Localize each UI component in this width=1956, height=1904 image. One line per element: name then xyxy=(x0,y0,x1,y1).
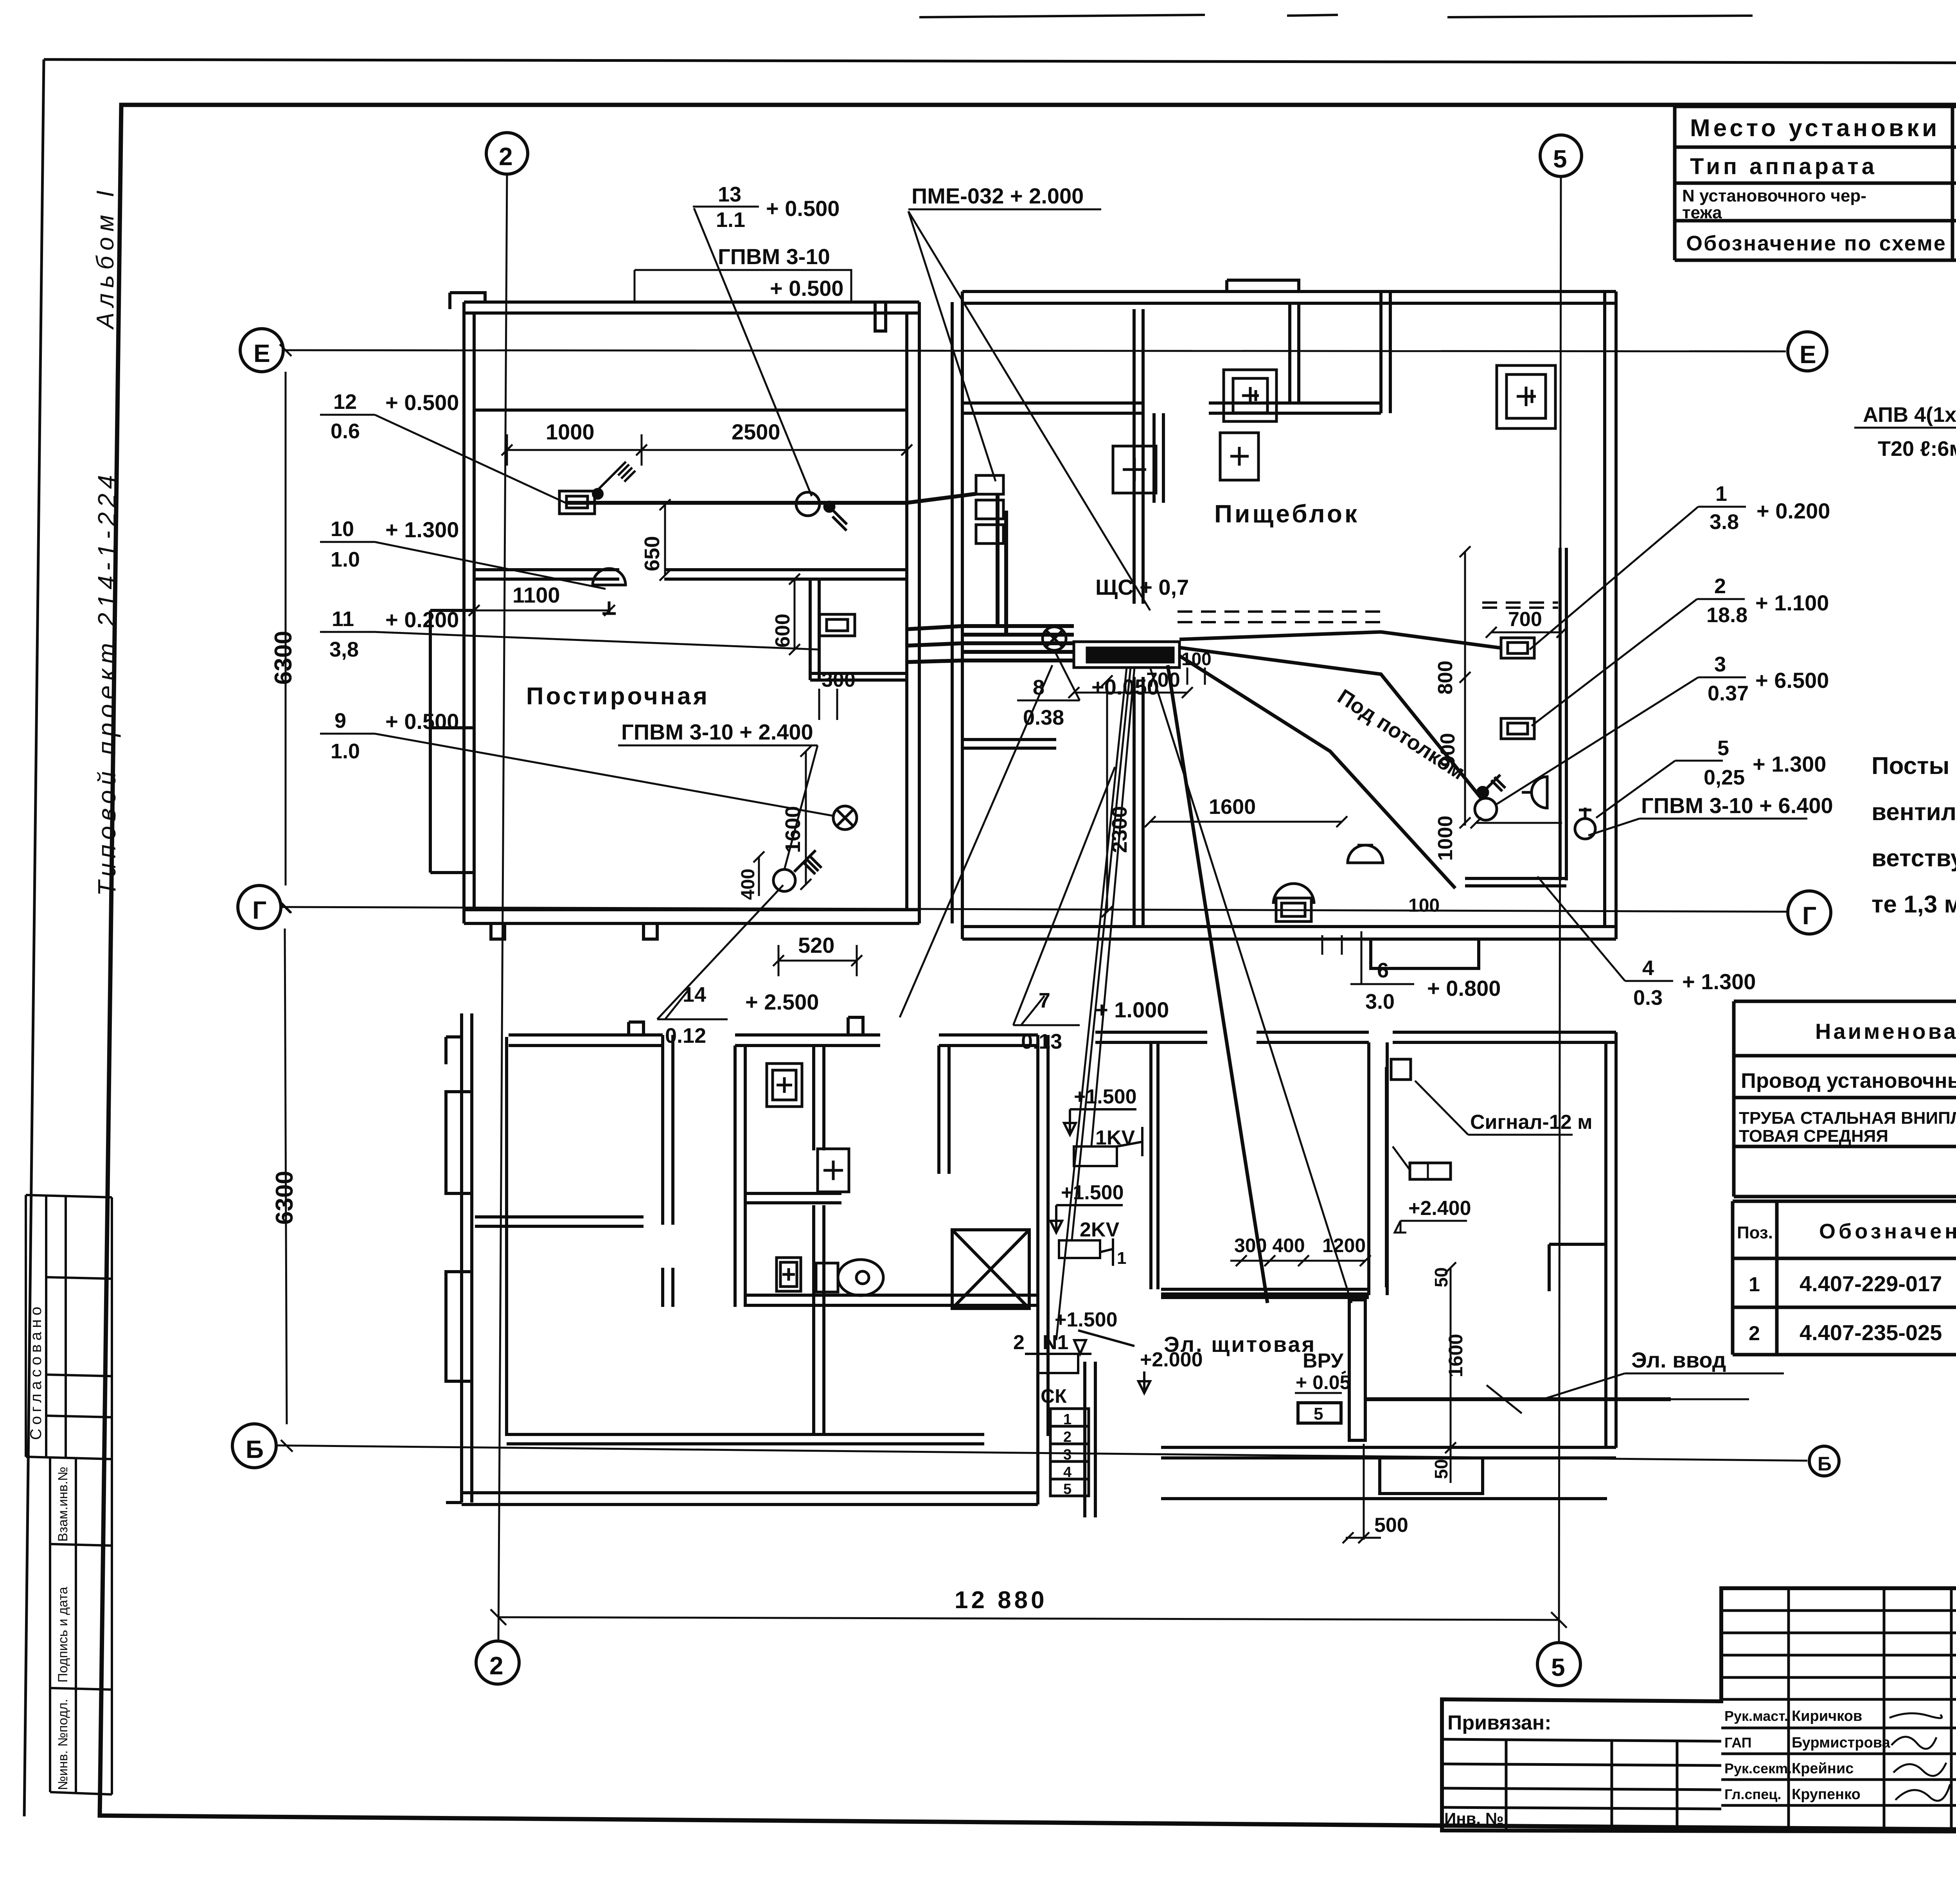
svg-text:N установочного чер-: N установочного чер- xyxy=(1682,186,1866,205)
dimension 520 xyxy=(773,933,862,976)
starter 1KV lower xyxy=(1064,1085,1142,1166)
svg-text:ПМЕ-032 + 2.000: ПМЕ-032 + 2.000 xyxy=(911,184,1084,208)
axis circle B right xyxy=(1809,1446,1839,1476)
upper plan left block outer walls xyxy=(450,293,919,939)
right margin label 1 xyxy=(1530,482,1830,650)
vertical dimension 6300 upper xyxy=(270,344,297,913)
svg-text:5: 5 xyxy=(1314,1404,1323,1424)
svg-text:+ 1.300: + 1.300 xyxy=(1682,969,1756,994)
label 8 fraction xyxy=(1017,650,1159,729)
left margin label 12 xyxy=(320,390,568,504)
motor circle with ground bottom xyxy=(773,850,822,891)
left margin vertical text: typical project xyxy=(93,470,121,896)
svg-text:6300: 6300 xyxy=(271,1171,298,1225)
svg-text:9: 9 xyxy=(334,709,346,732)
svg-text:ГПВМ 3-10 + 6.400: ГПВМ 3-10 + 6.400 xyxy=(1641,793,1833,818)
svg-text:Обозначение по схеме: Обозначение по схеме xyxy=(1686,232,1947,255)
label 4 fraction xyxy=(1537,876,1756,1010)
left margin label 11 xyxy=(320,607,820,661)
device box 1 lower xyxy=(1393,1146,1451,1179)
svg-text:2500: 2500 xyxy=(732,419,780,444)
dimension 700 right xyxy=(1486,608,1568,638)
dims 300 400 1200 lower xyxy=(1230,1235,1371,1266)
svg-text:Согласовано: Согласовано xyxy=(27,1303,45,1440)
top right table: place of installation xyxy=(1675,106,1956,260)
svg-text:520: 520 xyxy=(798,933,834,957)
svg-text:5: 5 xyxy=(1551,1653,1565,1681)
svg-text:500: 500 xyxy=(1374,1514,1408,1537)
svg-text:400: 400 xyxy=(738,869,759,900)
motor circle upper mid xyxy=(796,492,847,531)
svg-text:1100: 1100 xyxy=(512,583,560,607)
ground arrow upper left xyxy=(593,462,635,498)
svg-text:650: 650 xyxy=(640,536,664,571)
receptacle device upper left xyxy=(559,491,595,514)
svg-text:6300: 6300 xyxy=(270,631,297,685)
leaders from PME-032 xyxy=(908,211,1150,610)
wire label pod potolkom xyxy=(1333,685,1469,784)
svg-text:+ 6.500: + 6.500 xyxy=(1755,668,1829,693)
svg-text:+ 0.200: + 0.200 xyxy=(1756,498,1830,523)
table texts row4 xyxy=(1686,228,1956,263)
svg-text:АПВ 4(1х2,5): АПВ 4(1х2,5) xyxy=(1863,403,1956,427)
vertical dimension 6300 lower xyxy=(271,901,298,1452)
power panel ShchS hatched bar xyxy=(1074,642,1179,668)
svg-text:Б: Б xyxy=(1818,1453,1832,1475)
svg-text:1600: 1600 xyxy=(781,806,805,853)
title block left privyazan box xyxy=(1442,1711,1721,1832)
label GPVM 3-10 +2.400 xyxy=(618,720,818,869)
svg-text:4: 4 xyxy=(1642,956,1654,980)
dimension 100 near panel xyxy=(1181,649,1212,685)
svg-text:Гл.спец.: Гл.спец. xyxy=(1724,1786,1781,1802)
lamp right chamber xyxy=(1522,777,1547,808)
svg-text:0,25: 0,25 xyxy=(1704,766,1745,789)
svg-text:0.37: 0.37 xyxy=(1708,682,1749,705)
dimension 1600 left xyxy=(781,746,811,890)
lamp in middle room xyxy=(593,569,626,614)
dimension 1000 2500 top xyxy=(502,419,912,466)
svg-text:вентиляторов устанавливаются: вентиляторов устанавливаются у соот- xyxy=(1872,799,1956,826)
svg-text:ветствующих им пускателей н: ветствующих им пускателей на высо- xyxy=(1872,845,1956,872)
room label pishcheblok xyxy=(1214,500,1359,528)
axis circle E right xyxy=(1788,332,1827,371)
axis B line xyxy=(276,1445,1807,1461)
materials table xyxy=(1734,1001,1956,1197)
svg-text:Поз.: Поз. xyxy=(1737,1223,1773,1242)
svg-text:+2.400: +2.400 xyxy=(1408,1197,1471,1220)
axis 5 vertical line xyxy=(1559,176,1561,1643)
svg-text:Место установки: Место установки xyxy=(1690,115,1940,142)
svg-text:+1.500: +1.500 xyxy=(1061,1181,1124,1204)
svg-text:+ 0.500: + 0.500 xyxy=(766,196,840,221)
N1 bell lower xyxy=(1013,1308,1203,1393)
axis circle G left xyxy=(238,885,281,929)
dimension 1000 right xyxy=(1434,815,1471,861)
svg-text:Эл. щитовая: Эл. щитовая xyxy=(1164,1332,1316,1357)
svg-text:Тип аппарата: Тип аппарата xyxy=(1690,154,1877,179)
signal label xyxy=(1415,1081,1593,1135)
label 7 fraction xyxy=(1013,767,1169,1053)
title block signers xyxy=(1724,1708,1891,1803)
svg-text:1600: 1600 xyxy=(1445,1334,1467,1377)
svg-text:12 880: 12 880 xyxy=(955,1587,1048,1614)
SK terminal stack xyxy=(1041,1385,1089,1497)
dim 50 lower xyxy=(1431,1448,1451,1483)
svg-text:2: 2 xyxy=(1714,574,1726,598)
svg-text:2: 2 xyxy=(489,1652,503,1680)
sidebar label Soglasovano xyxy=(27,1303,45,1440)
svg-text:0.12: 0.12 xyxy=(665,1024,706,1047)
svg-text:3: 3 xyxy=(1714,653,1726,676)
svg-text:+ 0.800: + 0.800 xyxy=(1427,976,1501,1001)
dimension 2300 xyxy=(1102,675,1131,917)
sidebar stamp table (soglasovano) xyxy=(26,1195,112,1459)
svg-text:10: 10 xyxy=(331,517,354,541)
svg-text:6: 6 xyxy=(1377,959,1389,982)
dim 50 upper xyxy=(1431,1262,1456,1303)
thin extension of input line xyxy=(1487,1385,1749,1413)
left margin label 9 xyxy=(320,709,833,816)
svg-text:+1.500: +1.500 xyxy=(1074,1085,1137,1108)
lower plan left wall with windows xyxy=(446,1013,507,1503)
positions table texts xyxy=(1737,1220,1956,1353)
axis circle 5 bottom xyxy=(1537,1643,1580,1686)
svg-text:Типовой проект 214-1-224: Типовой проект 214-1-224 xyxy=(93,470,121,896)
svg-text:300: 300 xyxy=(822,669,856,691)
under-ceiling dashed run xyxy=(1178,603,1558,622)
svg-text:Альбом I: Альбом I xyxy=(92,185,119,330)
svg-text:Г: Г xyxy=(252,896,266,924)
right margin label 2 xyxy=(1532,574,1829,726)
wire risers up from panel xyxy=(998,494,1006,635)
svg-text:+ 0.500: + 0.500 xyxy=(385,390,459,415)
upper plan right block outer walls xyxy=(952,280,1616,968)
horizontal dimension 12880 xyxy=(491,1587,1567,1628)
svg-text:50: 50 xyxy=(1431,1459,1451,1479)
svg-text:Инв. №: Инв. № xyxy=(1444,1809,1504,1828)
wire bundle left of panel xyxy=(907,626,1074,662)
svg-text:Посты управления эл. двигате: Посты управления эл. двигателями xyxy=(1872,752,1956,779)
dimension 300 xyxy=(819,669,856,720)
svg-text:Обозначение: Обозначение xyxy=(1819,1220,1956,1243)
svg-text:Крупенко: Крупенко xyxy=(1792,1786,1861,1803)
signal device top xyxy=(1391,1059,1411,1080)
svg-text:1200: 1200 xyxy=(1322,1235,1366,1256)
svg-text:+ 1.300: + 1.300 xyxy=(1753,752,1826,776)
VRU cabinet xyxy=(1295,1300,1365,1440)
svg-text:1: 1 xyxy=(1117,1249,1126,1268)
lower plan top wall xyxy=(509,1017,1038,1046)
note paragraph xyxy=(1872,752,1956,918)
svg-text:СК: СК xyxy=(1041,1385,1067,1407)
svg-text:+ 0.500: + 0.500 xyxy=(385,709,459,734)
svg-text:50: 50 xyxy=(1431,1267,1451,1287)
svg-text:Бурмистрова: Бурмистрова xyxy=(1792,1735,1891,1751)
svg-text:3,8: 3,8 xyxy=(329,638,359,661)
svg-text:+ 1.100: + 1.100 xyxy=(1755,590,1829,615)
dimension 400 xyxy=(738,851,764,900)
svg-text:3: 3 xyxy=(1063,1447,1071,1463)
title block signatures xyxy=(1889,1713,1950,1801)
svg-text:13: 13 xyxy=(718,183,741,206)
svg-text:тежа: тежа xyxy=(1682,203,1722,222)
sidebar label vzam inv xyxy=(56,1467,70,1542)
svg-text:3.8: 3.8 xyxy=(1710,510,1739,534)
dimension 100 bottom xyxy=(1322,895,1440,955)
svg-text:ТРУБА СТАЛЬНАЯ ВНИПЛАС-: ТРУБА СТАЛЬНАЯ ВНИПЛАС- xyxy=(1739,1109,1956,1128)
svg-text:1.0: 1.0 xyxy=(331,548,360,571)
svg-text:1.1: 1.1 xyxy=(716,208,745,232)
svg-text:100: 100 xyxy=(1408,895,1440,916)
svg-text:Пищеблок: Пищеблок xyxy=(1214,500,1359,528)
svg-text:0.6: 0.6 xyxy=(331,419,360,443)
lamp at bottom wall xyxy=(1348,845,1383,863)
svg-text:Е: Е xyxy=(253,339,270,367)
upper room wire run left block xyxy=(565,494,976,503)
dimension 1600 centre xyxy=(1145,795,1347,827)
kitchen appliance boxes with cross xyxy=(1113,365,1555,493)
svg-text:1.0: 1.0 xyxy=(331,740,360,763)
svg-text:ТОВАЯ СРЕДНЯЯ: ТОВАЯ СРЕДНЯЯ xyxy=(1739,1127,1888,1146)
svg-text:1: 1 xyxy=(1715,482,1727,506)
svg-text:5: 5 xyxy=(1717,736,1729,760)
dim 1600 lower xyxy=(1445,1303,1467,1453)
svg-text:14: 14 xyxy=(683,983,706,1006)
dimension 900 right xyxy=(1436,733,1459,767)
label 6 fraction xyxy=(1350,931,1501,1013)
materials table texts xyxy=(1739,1014,1956,1146)
svg-text:100: 100 xyxy=(1181,649,1212,669)
label +2.400 xyxy=(1395,1197,1471,1233)
thin long leaders crossing plans xyxy=(900,665,1352,1340)
upper plan left block inner partitions xyxy=(430,410,907,873)
left margin label 10 xyxy=(320,517,606,589)
svg-text:800: 800 xyxy=(1434,660,1457,695)
motor circle lower left room xyxy=(833,806,857,830)
svg-text:2: 2 xyxy=(1063,1429,1071,1445)
right margin label 5 xyxy=(1596,736,1826,818)
svg-text:300 400: 300 400 xyxy=(1234,1235,1305,1256)
label GPVM 3-10 upper xyxy=(635,244,851,302)
wires lower plan xyxy=(1161,1067,1671,1399)
svg-text:1: 1 xyxy=(1749,1273,1760,1296)
sanitary plus box 2 xyxy=(818,1149,849,1192)
svg-text:5: 5 xyxy=(1063,1481,1071,1497)
dimension 600 xyxy=(771,574,800,655)
svg-text:+ 0.500: + 0.500 xyxy=(770,276,843,301)
washing device near bottom xyxy=(1273,884,1314,921)
svg-text:1: 1 xyxy=(1063,1411,1071,1428)
svg-text:1600: 1600 xyxy=(1209,795,1256,819)
svg-text:2KV: 2KV xyxy=(1080,1218,1119,1241)
left margin vertical text: album xyxy=(92,185,119,330)
svg-text:3.0: 3.0 xyxy=(1365,990,1395,1013)
svg-text:Б: Б xyxy=(246,1435,264,1463)
svg-text:4.407-235-025: 4.407-235-025 xyxy=(1800,1320,1942,1345)
upper plan room label postirochnaya xyxy=(526,683,710,710)
svg-text:№инв. №подл.: №инв. №подл. xyxy=(56,1699,70,1790)
svg-text:Провод установочный: Провод установочный xyxy=(1741,1069,1956,1092)
sidebar label podpis i data xyxy=(56,1587,70,1683)
svg-text:Крейнис: Крейнис xyxy=(1792,1760,1854,1777)
starter 2KV lower xyxy=(1050,1181,1126,1268)
svg-text:1000: 1000 xyxy=(546,419,595,444)
receptacle device right wall upper xyxy=(1501,638,1534,658)
receptacle device mid right xyxy=(820,614,855,636)
table texts row3 xyxy=(1682,185,1956,224)
svg-text:Постирочная: Постирочная xyxy=(526,683,710,710)
svg-text:1000: 1000 xyxy=(1434,815,1457,861)
svg-text:Г: Г xyxy=(1802,902,1816,930)
dimension 1100 xyxy=(469,583,615,616)
svg-text:2: 2 xyxy=(1013,1331,1025,1354)
title block centre grid xyxy=(1721,1588,1956,1832)
svg-text:Наименование: Наименование xyxy=(1815,1019,1956,1044)
axis circle E left xyxy=(240,329,283,372)
svg-text:7: 7 xyxy=(1039,989,1050,1012)
wires fanning right from panel xyxy=(1179,632,1501,888)
svg-text:ГПВМ 3-10: ГПВМ 3-10 xyxy=(718,244,830,269)
sanitary plus box 3 xyxy=(777,1258,801,1291)
svg-text:ГПВМ 3-10 + 2.400: ГПВМ 3-10 + 2.400 xyxy=(621,720,813,744)
right margin label 3 xyxy=(1497,653,1829,804)
leader from label 13 xyxy=(694,208,812,496)
sidebar lower section grid xyxy=(50,1457,112,1794)
sanitary plus box 1 xyxy=(767,1064,802,1107)
svg-text:Взам.инв.№: Взам.инв.№ xyxy=(56,1467,70,1542)
lower plan bottom walls xyxy=(462,1434,1038,1504)
svg-text:Эл. ввод: Эл. ввод xyxy=(1631,1348,1726,1372)
label PME-032 xyxy=(908,184,1101,209)
svg-text:5: 5 xyxy=(1553,145,1567,173)
junction circle near panel xyxy=(1043,627,1066,650)
svg-text:+ 1.000: + 1.000 xyxy=(1095,997,1169,1022)
label APV4 xyxy=(1854,403,1956,461)
long riser diagonal to lower plan xyxy=(1168,665,1267,1303)
toilet symbol xyxy=(816,1260,883,1296)
table texts row1 xyxy=(1690,114,1956,144)
svg-text:2: 2 xyxy=(1749,1322,1760,1345)
svg-text:11: 11 xyxy=(332,607,354,631)
axis circle G right xyxy=(1788,891,1831,934)
svg-text:те 1,3 м. от пола.: те 1,3 м. от пола. xyxy=(1872,891,1956,918)
svg-text:4.407-229-017: 4.407-229-017 xyxy=(1800,1271,1942,1296)
dimension 700 near panel xyxy=(1068,669,1193,698)
junction boxes at corridor wall xyxy=(976,475,1003,543)
dimension 800 right xyxy=(1434,546,1471,826)
dimension 650 xyxy=(640,499,671,581)
upper plan right block inner partitions xyxy=(962,292,1390,927)
svg-text:ВРУ: ВРУ xyxy=(1303,1350,1344,1372)
svg-text:ГАП: ГАП xyxy=(1724,1735,1752,1751)
axis circle 5 top xyxy=(1540,135,1582,176)
svg-text:Рук.секm.: Рук.секm. xyxy=(1724,1760,1792,1776)
svg-text:2: 2 xyxy=(499,142,513,171)
svg-text:+ 2.500: + 2.500 xyxy=(745,990,819,1014)
axis G line xyxy=(281,907,1788,912)
dim 500 xyxy=(1343,1444,1408,1543)
label 13 fraction xyxy=(693,183,840,232)
svg-text:600: 600 xyxy=(771,614,794,648)
fan symbol right room xyxy=(1575,808,1595,839)
label el vvod xyxy=(1543,1348,1784,1399)
axis 2 vertical line xyxy=(498,174,507,1641)
title block outer xyxy=(1442,1588,1956,1832)
svg-text:Е: Е xyxy=(1800,340,1816,369)
svg-text:Рук.маст.: Рук.маст. xyxy=(1724,1708,1788,1724)
axis circle B left xyxy=(232,1424,276,1468)
label 14 fraction xyxy=(657,885,819,1047)
axis circle 2 bottom xyxy=(476,1641,519,1684)
axis circle 2 top xyxy=(486,133,528,174)
svg-text:Киричков: Киричков xyxy=(1792,1708,1862,1724)
svg-text:+ 1.300: + 1.300 xyxy=(385,517,459,542)
room label el. shchitovaya xyxy=(1164,1332,1316,1357)
right margin label GPVM 6.400 xyxy=(1588,793,1833,835)
shaft cross box xyxy=(952,1230,1029,1308)
svg-text:+ 0.200: + 0.200 xyxy=(385,607,459,632)
dimension line small right xyxy=(1471,817,1562,828)
sidebar label inv n podl xyxy=(56,1699,70,1790)
svg-text:4: 4 xyxy=(1063,1464,1071,1481)
svg-text:700: 700 xyxy=(1508,608,1542,631)
positions table xyxy=(1733,1201,1956,1355)
svg-text:Подпись и дата: Подпись и дата xyxy=(56,1587,70,1683)
svg-text:900: 900 xyxy=(1436,733,1459,767)
vent motor circle right xyxy=(1475,775,1505,820)
receptacle device right wall lower xyxy=(1501,718,1534,739)
svg-text:+ 0.05: + 0.05 xyxy=(1296,1371,1350,1393)
label ShchS xyxy=(1095,575,1189,599)
axis E line xyxy=(283,350,1786,351)
svg-text:0.3: 0.3 xyxy=(1633,986,1663,1010)
svg-text:18.8: 18.8 xyxy=(1706,603,1747,627)
scan edge artifact top xyxy=(919,15,1753,17)
svg-text:Привязан:: Привязан: xyxy=(1447,1711,1551,1734)
svg-text:Сигнал-12 м: Сигнал-12 м xyxy=(1470,1111,1593,1134)
svg-text:12: 12 xyxy=(333,390,357,414)
svg-text:Т20 ℓ:6м: Т20 ℓ:6м xyxy=(1878,437,1956,461)
table texts row2 xyxy=(1690,154,1956,179)
lower plan right section walls xyxy=(1085,1032,1616,1517)
lower plan inner partitions xyxy=(475,1035,1048,1436)
svg-text:N1: N1 xyxy=(1043,1331,1068,1354)
svg-text:+1.500: +1.500 xyxy=(1055,1308,1118,1331)
